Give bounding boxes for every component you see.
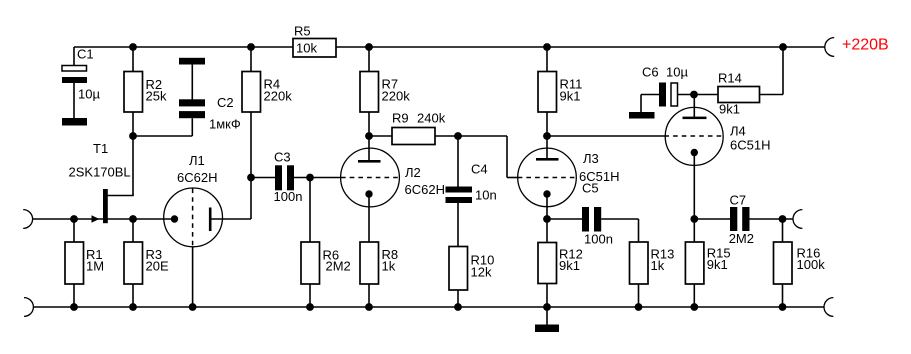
wire R9 right lead [435,135,458,137]
wire input line [33,218,175,220]
node ground/R10 [454,303,462,311]
node R4/Л1 anode/C3 [247,174,255,182]
capacitor C2 [179,95,241,132]
wire Л1 grid-to-ground lead [192,247,194,307]
wire T1 drain lead [108,136,134,196]
svg-text:R9: R9 [392,111,409,126]
tube U Л1 [164,153,223,247]
wire R1 top lead [73,219,75,242]
node top rail / R11 [543,43,551,51]
svg-text:+220В: +220В [842,37,889,54]
node T1 source/R3 [129,215,137,223]
node input/R1 [70,215,78,223]
resistor R15 [685,242,730,284]
node top rail / R2 [129,43,137,51]
node ground/R8 [365,303,373,311]
svg-text:C7: C7 [730,193,747,208]
capacitor C4 [446,162,497,204]
svg-text:220k: 220k [264,89,293,104]
wire R12 top lead [546,219,548,243]
wire C7 left lead [694,218,730,220]
wire C7 right lead [750,218,794,220]
svg-text:10µ: 10µ [666,65,688,80]
wire C6 ground lead [641,95,659,113]
tube U Л3 [518,148,620,207]
wire R9 left lead [369,135,392,137]
ground connector right [824,298,833,317]
wire Л3 anode lead [546,136,548,160]
resistor R13 [630,242,675,284]
capacitor C5 [582,181,613,247]
svg-text:10µ: 10µ [78,87,100,102]
svg-text:Л4: Л4 [730,124,746,139]
node top rail / R7 [365,43,373,51]
input connector J1 [23,210,32,229]
svg-text:1k: 1k [382,259,396,274]
node R9/C4/wire to Л3 [454,132,462,140]
output connector [793,210,802,229]
wire C2 bottom lead [133,118,192,136]
wire C1 top lead [73,47,75,66]
resistor R5 [293,24,336,58]
svg-text:25k: 25k [146,89,167,104]
svg-text:Л2: Л2 [405,165,421,180]
resistor R1 [65,242,104,284]
resistor R4 [242,72,292,113]
svg-text:100n: 100n [584,232,613,247]
wire R16 top lead [782,219,784,242]
wire R6 top lead [309,178,311,243]
+220V connector [825,38,834,57]
svg-text:2M2: 2M2 [729,231,754,246]
svg-text:100k: 100k [797,257,826,272]
svg-text:1мкФ: 1мкФ [209,117,241,132]
resistor R8 [360,242,398,284]
capacitor C6 [642,65,688,107]
svg-text:1M: 1M [86,259,104,274]
ground symbol at C6 [629,112,655,119]
wire R3 bottom lead [132,284,134,307]
wire Л4 cathode lead [693,153,695,220]
svg-text:C6: C6 [642,65,659,80]
svg-text:6С51Н: 6С51Н [730,138,770,153]
node R11/Л3 anode/Л4 grid wire [543,132,551,140]
+220V label [842,37,889,54]
svg-text:R14: R14 [718,71,742,86]
node C6/R14/Л4 anode [690,91,698,99]
wire R4 bottom lead [250,112,252,178]
wire R6 bottom lead [309,284,311,307]
svg-text:C1: C1 [77,47,94,62]
wire C4 top lead [457,136,459,187]
svg-text:9k1: 9k1 [560,89,581,104]
wire Л1 anode lead [210,178,251,220]
wire R10 bottom lead [457,290,459,307]
resistor R10 [449,247,494,291]
wire ground rail [33,306,824,308]
wire R8 bottom lead [368,284,370,307]
wire R15 top lead [693,219,695,242]
node ground/R15 [690,303,698,311]
node C3/R6/Л2 grid [306,174,314,182]
svg-text:20E: 20E [146,259,169,274]
wire C3 left lead [251,177,275,179]
wire R11 bottom lead [546,112,548,136]
resistor R2 [124,72,167,113]
wire Л3 junction to Л4 grid [547,135,665,137]
capacitor C3 [274,150,303,205]
svg-text:R5: R5 [294,24,311,39]
wire Л2 anode lead [368,136,370,161]
resistor R16 [774,242,826,284]
ground connector left [24,298,33,317]
resistor R14 [718,71,760,117]
svg-text:100n: 100n [274,189,303,204]
wire C4 bottom lead [457,203,459,247]
node ground/R1 [70,303,78,311]
svg-text:Л1: Л1 [189,153,205,168]
svg-text:9k1: 9k1 [719,102,740,117]
ground symbol at C2 top [179,58,205,65]
svg-text:6С62Н: 6С62Н [405,182,445,197]
wire R4 top lead [250,47,252,72]
resistor R9 [392,111,446,145]
wire top +220V rail right of R5 [336,46,825,48]
transistor T1 [69,141,131,223]
node ground/R13 [635,303,643,311]
svg-text:2SK170BL: 2SK170BL [69,165,131,180]
wire R3 top lead [132,219,134,242]
svg-text:C3: C3 [274,150,291,165]
node C7/R16/output [779,215,787,223]
node R7/R9/Л2 anode [365,132,373,140]
node R2/C2/T1 drain [129,132,137,140]
svg-text:10k: 10k [296,41,317,56]
svg-text:240k: 240k [417,111,446,126]
svg-text:1k: 1k [651,258,665,273]
svg-text:9k1: 9k1 [707,257,728,272]
wire Л3 cathode lead [546,194,548,219]
wire R1 bottom lead [73,284,75,307]
wire R9 junction to Л3 grid [458,136,518,178]
svg-text:10n: 10n [475,188,497,203]
wire R7 top lead [368,47,370,72]
wire C5 left lead [547,218,582,220]
wire Л2 cathode lead [368,194,370,242]
node ground/R6 [306,303,314,311]
wire R16 bottom lead [782,284,784,307]
svg-text:C5: C5 [582,181,599,196]
wire Л4 anode lead [693,95,695,119]
wire C3 right lead [294,177,341,179]
wire R15 bottom lead [693,284,695,307]
capacitor C7 [729,193,754,247]
wire C2 top lead [191,65,193,100]
resistor R11 [538,72,582,113]
capacitor C1 [62,47,100,119]
node ground/R12 [543,303,551,311]
node ground/R16 [779,303,787,311]
svg-text:9k1: 9k1 [559,258,580,273]
resistor R6 [301,242,351,284]
wire C5 right lead [601,219,638,242]
wire R7 bottom lead [368,112,370,136]
wire R14 right lead to rail [760,47,784,95]
svg-text:C2: C2 [217,95,234,110]
svg-text:12k: 12k [471,265,492,280]
svg-text:C4: C4 [471,162,488,177]
node Л3 cathode/R12/C5 [543,215,551,223]
node ground/R3 [129,303,137,311]
wire ground stub [546,307,548,325]
ground symbol below rail [535,325,559,333]
ground symbol at C1 [62,118,87,126]
wire R13 bottom lead [638,284,640,307]
node ground/Л1 grid [189,303,197,311]
node top rail / R14 [779,43,787,51]
wire R12 bottom lead [546,284,548,308]
resistor R12 [538,243,583,284]
svg-text:T1: T1 [93,141,108,156]
tube U Л2 [341,148,445,207]
resistor R7 [360,72,410,113]
wire R11 top lead [546,47,548,72]
wire R2 top lead [132,47,134,72]
resistor R3 [124,242,169,284]
tube U Л4 [664,107,770,165]
svg-text:220k: 220k [382,89,411,104]
wire R2 bottom lead [132,112,134,136]
node Л4 cathode/R15/C7 [690,215,698,223]
wire top +220V rail left of R5 [74,46,293,48]
node top rail / R4 [247,43,255,51]
wire C6 right lead [678,94,719,96]
svg-text:Л3: Л3 [583,151,599,166]
svg-text:6С62Н: 6С62Н [177,170,217,185]
svg-text:2M2: 2M2 [326,259,351,274]
